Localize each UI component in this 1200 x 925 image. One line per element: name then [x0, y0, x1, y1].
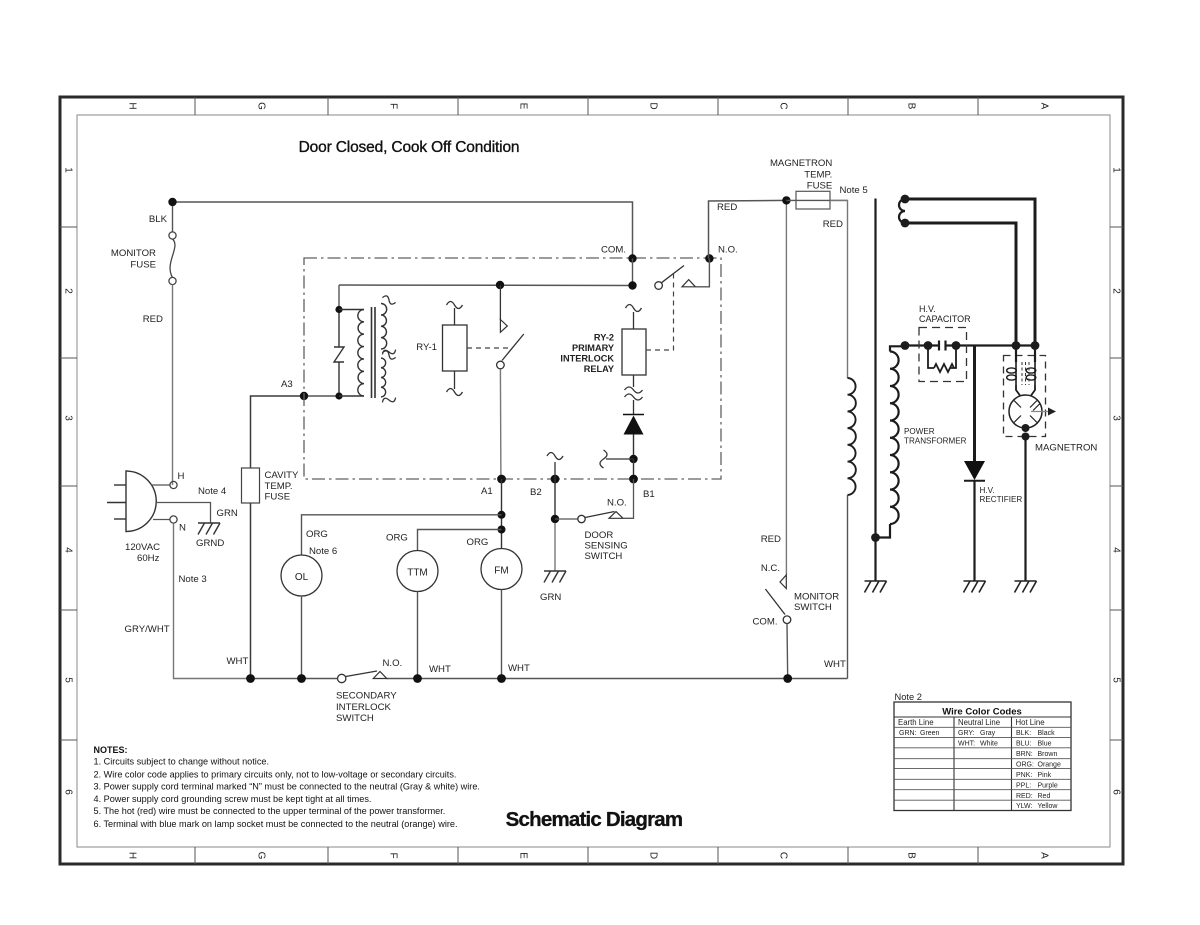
svg-text:E: E — [518, 852, 529, 859]
svg-text:D: D — [648, 102, 659, 109]
junction node WHT-OL — [297, 674, 306, 683]
svg-text:SENSING: SENSING — [585, 541, 628, 552]
svg-text:Red: Red — [1038, 793, 1051, 800]
svg-text:120VAC: 120VAC — [125, 542, 160, 553]
svg-text:Black: Black — [1038, 730, 1056, 737]
svg-text:Wire Color Codes: Wire Color Codes — [942, 707, 1022, 718]
B2 ground — [554, 523, 556, 571]
node capacitor right — [952, 341, 961, 350]
svg-text:RED: RED — [823, 219, 843, 230]
svg-text:PPL:: PPL: — [1016, 782, 1031, 789]
fuse element S-curve — [170, 239, 175, 278]
junction node RED-fuse — [782, 196, 790, 204]
svg-text:PRIMARY: PRIMARY — [572, 343, 614, 353]
svg-text:ORG: ORG — [386, 533, 408, 544]
svg-text:RED: RED — [717, 202, 737, 213]
door sensing switch — [554, 479, 556, 519]
svg-text:5: 5 — [1111, 677, 1122, 683]
svg-text:RED: RED — [761, 534, 781, 545]
svg-text:RY-1: RY-1 — [416, 342, 437, 353]
svg-text:MAGNETRON: MAGNETRON — [770, 158, 832, 169]
branch to OL — [302, 515, 502, 555]
svg-text:N.O.: N.O. — [383, 658, 403, 669]
terminal H — [151, 484, 170, 486]
junction node A1-OL branch — [498, 511, 506, 519]
svg-text:H: H — [178, 471, 185, 482]
svg-text:GRY/WHT: GRY/WHT — [125, 624, 170, 635]
svg-text:Brown: Brown — [1038, 751, 1058, 758]
svg-text:COM.: COM. — [752, 617, 777, 628]
node A3 — [300, 392, 308, 400]
svg-text:ORG: ORG — [467, 537, 489, 548]
svg-text:RELAY: RELAY — [584, 364, 614, 374]
svg-text:F: F — [388, 852, 399, 858]
wire A1 down with branches — [501, 479, 503, 549]
svg-text:NOTES:: NOTES: — [94, 745, 128, 755]
wire horizontal mid — [339, 284, 633, 287]
svg-text:FUSE: FUSE — [130, 260, 156, 271]
svg-text:Orange: Orange — [1038, 761, 1061, 768]
svg-text:GRN: GRN — [540, 592, 561, 603]
svg-text:Purple: Purple — [1038, 782, 1058, 789]
svg-text:WHT: WHT — [429, 664, 451, 675]
svg-text:5. The hot (red) wire must be: 5. The hot (red) wire must be connected … — [94, 806, 446, 816]
svg-text:ORG: ORG — [306, 529, 328, 540]
svg-text:G: G — [256, 852, 267, 860]
border frame outer — [60, 97, 1123, 864]
wire NO up to RED — [709, 200, 787, 258]
junction node WHT-FM — [497, 674, 506, 683]
svg-text:MAGNETRON: MAGNETRON — [1035, 443, 1097, 454]
node top-left — [168, 198, 176, 206]
svg-text:GRN:: GRN: — [899, 730, 917, 737]
svg-text:BLU:: BLU: — [1016, 741, 1032, 748]
LVT primary coil — [339, 309, 364, 311]
svg-text:6. Terminal with blue mark on: 6. Terminal with blue mark on lamp socke… — [94, 819, 458, 829]
svg-text:Note 5: Note 5 — [840, 185, 868, 196]
svg-text:6: 6 — [63, 789, 74, 795]
fuse terminal circle top — [169, 232, 176, 239]
wire A3 branch — [251, 396, 305, 679]
node NO — [705, 254, 713, 262]
node LVT primary top — [335, 306, 342, 313]
HV capacitor line — [905, 344, 939, 346]
svg-text:E: E — [518, 103, 529, 110]
magnetron tube — [1009, 395, 1042, 428]
svg-text:Pink: Pink — [1038, 772, 1052, 779]
svg-text:1: 1 — [1111, 167, 1122, 173]
svg-text:2. Wire color code applies to: 2. Wire color code applies to primary ci… — [94, 769, 457, 779]
svg-text:B1: B1 — [643, 489, 655, 500]
ground HV rectifier — [964, 580, 986, 582]
svg-text:RECTIFIER: RECTIFIER — [980, 495, 1023, 504]
svg-text:C: C — [778, 102, 789, 109]
relay RY-2 — [626, 305, 642, 312]
LVT secondary lower — [381, 358, 386, 397]
node filament winding top — [901, 195, 910, 204]
LVT secondary upper — [381, 304, 387, 350]
svg-text:CAPACITOR: CAPACITOR — [919, 314, 971, 324]
svg-text:G: G — [256, 102, 267, 110]
heavy wire top right — [905, 199, 1035, 346]
node magnetron cathode — [1022, 424, 1030, 432]
junction node WHT-monitor switch — [783, 674, 792, 683]
svg-text:Gray: Gray — [980, 730, 996, 737]
svg-text:N.O.: N.O. — [718, 245, 738, 256]
plug 120VAC — [126, 471, 156, 532]
svg-text:TTM: TTM — [407, 568, 428, 579]
svg-text:TEMP.: TEMP. — [265, 481, 293, 492]
capacitor plates — [938, 341, 940, 351]
svg-text:Neutral Line: Neutral Line — [958, 718, 1000, 727]
svg-text:Earth Line: Earth Line — [898, 718, 934, 727]
fuse terminal circle bottom — [169, 277, 176, 284]
svg-text:RY-2: RY-2 — [594, 333, 614, 343]
svg-text:Schematic Diagram: Schematic Diagram — [506, 808, 683, 831]
svg-text:TRANSFORMER: TRANSFORMER — [904, 437, 967, 446]
svg-text:2: 2 — [63, 288, 74, 294]
svg-text:RED:: RED: — [1016, 793, 1033, 800]
heavy wire second — [905, 223, 1016, 346]
HV capacitor dashed box — [919, 328, 967, 382]
border frame inner — [77, 115, 1110, 847]
LVT core — [371, 307, 373, 398]
svg-text:INTERLOCK: INTERLOCK — [560, 354, 614, 364]
svg-text:WHT: WHT — [508, 663, 530, 674]
ground wire GRN — [156, 503, 211, 523]
svg-text:BLK:: BLK: — [1016, 730, 1031, 737]
svg-text:3. Power supply cord terminal: 3. Power supply cord terminal marked “N”… — [94, 781, 480, 791]
svg-text:SWITCH: SWITCH — [336, 713, 374, 724]
PT ground — [865, 580, 887, 582]
svg-text:DOOR: DOOR — [585, 530, 614, 541]
svg-text:Door Closed, Cook Off Conditio: Door Closed, Cook Off Condition — [299, 139, 520, 156]
HV rectifier — [973, 346, 976, 462]
RY-2 break squiggles — [633, 375, 635, 387]
svg-text:CAVITY: CAVITY — [265, 470, 300, 481]
node magnetron box — [1022, 433, 1030, 441]
svg-text:Green: Green — [920, 730, 940, 737]
svg-text:BRN:: BRN: — [1016, 751, 1033, 758]
svg-text:COM.: COM. — [601, 245, 626, 256]
HV secondary coil — [890, 346, 905, 351]
svg-text:SECONDARY: SECONDARY — [336, 691, 397, 702]
svg-text:MONITOR: MONITOR — [111, 248, 156, 259]
monitor fuse — [172, 206, 174, 232]
svg-text:Note 4: Note 4 — [198, 486, 227, 497]
svg-text:F: F — [388, 103, 399, 109]
wire RED down — [785, 200, 787, 575]
motor TTM — [397, 551, 438, 592]
node COM — [628, 254, 636, 262]
ground magnetron — [1015, 580, 1037, 582]
svg-text:A1: A1 — [481, 486, 493, 497]
svg-text:H: H — [127, 102, 138, 109]
svg-text:3: 3 — [1111, 415, 1122, 421]
magnetron dashed box — [1004, 356, 1046, 437]
node door sensing branch — [551, 515, 559, 523]
node capacitor left — [924, 341, 933, 350]
node LVT primary bottom — [335, 392, 342, 399]
node A1 — [497, 475, 506, 484]
svg-text:A3: A3 — [281, 379, 293, 390]
wire RED vertical — [172, 285, 174, 485]
svg-text:N.O.: N.O. — [607, 498, 627, 509]
svg-text:3: 3 — [63, 415, 74, 421]
svg-text:H.V.: H.V. — [980, 486, 995, 495]
lamp OL — [281, 555, 322, 596]
svg-text:4. Power supply cord grounding: 4. Power supply cord grounding screw mus… — [94, 794, 372, 804]
svg-text:WHT:: WHT: — [958, 741, 975, 748]
svg-text:60Hz: 60Hz — [137, 553, 160, 564]
secondary interlock switch — [338, 674, 346, 682]
svg-text:FUSE: FUSE — [265, 492, 291, 503]
junction node WHT-cavity fuse — [246, 674, 255, 683]
svg-text:POWER: POWER — [904, 427, 935, 436]
svg-text:FUSE: FUSE — [807, 181, 833, 192]
magnetron chokes — [1015, 362, 1017, 385]
junction node WHT-TTM — [413, 674, 422, 683]
svg-text:White: White — [980, 741, 998, 748]
svg-text:H.V.: H.V. — [919, 304, 936, 314]
RY-1 linkage dashed — [467, 347, 509, 349]
terminal N — [153, 519, 170, 521]
svg-text:WHT: WHT — [227, 656, 249, 667]
node magnetron filament left — [1012, 341, 1021, 350]
svg-text:4: 4 — [1111, 547, 1122, 553]
svg-text:N.C.: N.C. — [761, 563, 780, 574]
svg-text:Note 3: Note 3 — [179, 574, 207, 585]
RY-2 contact switch — [632, 259, 634, 286]
svg-text:1: 1 — [63, 167, 74, 173]
node B1 — [629, 475, 638, 484]
svg-text:OL: OL — [295, 572, 309, 583]
svg-text:Yellow: Yellow — [1038, 803, 1059, 810]
junction node A1-TTM branch — [498, 526, 506, 534]
svg-text:B2: B2 — [530, 487, 542, 498]
node filament winding bottom — [901, 219, 910, 228]
svg-text:SWITCH: SWITCH — [585, 551, 623, 562]
RY-2 linkage dashed — [646, 272, 674, 350]
svg-text:GRY:: GRY: — [958, 730, 975, 737]
svg-text:2: 2 — [1111, 288, 1122, 294]
svg-text:Note 6: Note 6 — [309, 546, 337, 557]
svg-text:BLK: BLK — [149, 214, 168, 225]
svg-text:C: C — [778, 852, 789, 859]
svg-text:PNK:: PNK: — [1016, 772, 1032, 779]
svg-text:GRN: GRN — [217, 508, 238, 519]
node RY-2 contact pivot feed — [628, 281, 636, 289]
antenna arrow — [1031, 411, 1049, 413]
svg-text:5: 5 — [63, 677, 74, 683]
svg-text:A: A — [1039, 103, 1050, 110]
ground GRND — [198, 522, 220, 524]
svg-text:D: D — [648, 852, 659, 859]
svg-text:4: 4 — [63, 547, 74, 553]
svg-text:ORG:: ORG: — [1016, 761, 1034, 768]
motor FM — [481, 549, 522, 590]
svg-text:Blue: Blue — [1038, 741, 1052, 748]
svg-text:Note 2: Note 2 — [895, 692, 922, 702]
svg-text:B: B — [906, 103, 917, 110]
svg-text:INTERLOCK: INTERLOCK — [336, 702, 392, 713]
svg-text:6: 6 — [1111, 789, 1122, 795]
junction node HV secondary-ground — [871, 533, 880, 542]
svg-text:FM: FM — [494, 566, 508, 577]
node B2 — [551, 475, 560, 484]
node HV secondary top — [901, 341, 910, 350]
PT center tap line — [874, 199, 876, 538]
lamp/motor bottom wires — [301, 596, 303, 679]
svg-text:Hot Line: Hot Line — [1016, 718, 1045, 727]
svg-text:SWITCH: SWITCH — [794, 602, 832, 613]
svg-text:MONITOR: MONITOR — [794, 592, 839, 603]
node B1 upper junction — [629, 455, 637, 463]
diode (relay circuit) — [623, 414, 644, 416]
door boundary dash-dot box — [304, 258, 721, 479]
wire A3 to transformer — [304, 395, 339, 397]
B2 squiggle — [554, 462, 556, 479]
relay RY-1 — [443, 325, 468, 371]
svg-text:TEMP.: TEMP. — [804, 170, 832, 181]
svg-text:B: B — [906, 852, 917, 859]
svg-text:GRND: GRND — [196, 538, 224, 549]
svg-text:YLW:: YLW: — [1016, 803, 1033, 810]
node magnetron filament right — [1031, 341, 1040, 350]
branch to TTM — [418, 530, 502, 551]
svg-text:H: H — [127, 852, 138, 859]
wire GRY/WHT — [174, 523, 251, 678]
wire WHT bottom — [251, 678, 338, 680]
wire top BLK horizontal — [173, 202, 633, 259]
svg-text:WHT: WHT — [824, 659, 846, 670]
bleed resistor — [928, 346, 934, 369]
svg-text:N: N — [179, 523, 186, 534]
power transformer primary — [848, 378, 856, 495]
svg-text:A: A — [1039, 852, 1050, 859]
svg-text:RED: RED — [143, 314, 163, 325]
cavity temp fuse — [242, 468, 260, 503]
svg-text:1. Circuits subject to change: 1. Circuits subject to change without no… — [94, 756, 270, 766]
node RY-1 contact top — [496, 281, 504, 289]
